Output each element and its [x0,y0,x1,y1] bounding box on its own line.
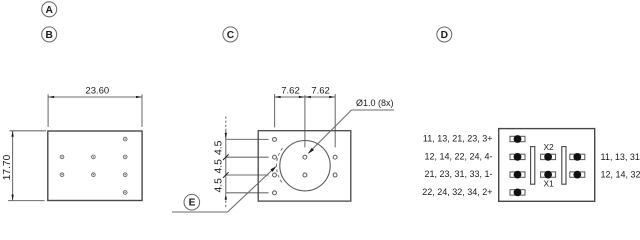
svg-text:23.60: 23.60 [85,85,109,96]
svg-text:11, 13, 21, 23, 3+: 11, 13, 21, 23, 3+ [423,133,493,143]
svg-text:21, 23, 31, 33, 1-: 21, 23, 31, 33, 1- [424,169,492,179]
svg-text:D: D [441,30,448,41]
svg-text:4.5: 4.5 [214,178,225,193]
solder pad hole col3 row2 (view B) [123,155,127,159]
drill hole col3 row2 (view C) [333,155,337,159]
svg-text:E: E [189,198,196,209]
pin left row1 (view D) [510,135,525,143]
dimension 23.60 extension lines (view B) [48,94,142,127]
dimension 17.70 line and arrows (view B) [11,131,13,201]
dimension 7.62 line and arrows (view C) [275,96,336,98]
view label E [184,194,200,210]
svg-text:4.5: 4.5 [214,159,225,174]
view label B [42,27,57,42]
svg-text:7.62: 7.62 [311,85,330,96]
coil pin X1 (view D) [541,171,556,179]
drill hole col3 row3 (view C) [333,173,337,177]
svg-text:Ø1.0 (8x): Ø1.0 (8x) [356,98,394,108]
chained dimension tick extension lines (view C) [226,139,269,192]
solder pad hole col2 row3 (view B) [92,173,96,177]
chained dimension arrows and slash ticks (view C) [223,133,229,200]
pin left row4 (view D) [510,189,525,197]
coil bar left (view D) [531,147,535,185]
solder pad hole col3 row4 (view B) [123,191,127,195]
solder pad hole col3 row3 (view B) [123,173,127,177]
pin left row2 (view D) [510,153,525,161]
drill hole col2 row3 (view C) [303,173,307,177]
svg-text:C: C [227,30,235,41]
relay base outline rectangle (view D) [499,129,595,202]
pin left row3 (view D) [510,171,525,179]
drill hole col1 row3 (view C) [273,173,277,177]
relay body circle (view C) [280,141,330,191]
dashed keying arc (view C) [276,148,282,183]
dimension 7.62 extension lines (view C) [275,94,336,147]
solder pad hole col1 row3 (view B) [60,173,64,177]
relay body outline rectangle (view C) [258,131,351,201]
svg-text:X1: X1 [543,178,554,188]
svg-text:12, 14, 32: 12, 14, 32 [601,170,640,180]
svg-text:17.70: 17.70 [2,154,13,180]
chained dimension 4.5 vertical line (view C) [225,117,227,208]
svg-text:B: B [46,30,53,41]
terminal labels right column (view D) [601,152,640,180]
solder pad hole col1 row2 (view B) [60,155,64,159]
svg-text:11, 13, 31: 11, 13, 31 [601,152,640,162]
svg-text:A: A [46,5,54,16]
drill hole col1 row4 (view C) [273,191,277,195]
view label D [437,27,452,42]
dimension 17.70 extension lines (view B) [8,131,46,201]
pin right-col row3 (view D) [570,171,585,179]
svg-text:12, 14, 22, 24, 4-: 12, 14, 22, 24, 4- [424,151,492,161]
footprint outline rectangle (view B) [48,131,142,201]
solder pad hole col2 row2 (view B) [92,155,96,159]
coil bar right (view D) [562,147,566,185]
leader line from E to keying arc (view C) [172,166,277,212]
svg-text:7.62: 7.62 [281,85,300,96]
terminal labels left column (view D) [422,133,492,196]
solder pad hole col3 row1 (view B) [123,137,127,141]
leader line to hole (view C) [308,110,394,154]
drill hole col2 row2 (view C) [303,155,307,159]
view label A [42,2,57,17]
drill hole col1 row2 (view C) [273,155,277,159]
drill hole col1 row1 (view C) [273,137,277,141]
view label C [223,27,238,42]
dimension 23.60 line and arrows (view B) [48,96,142,98]
coil pin X2 (view D) [541,153,556,161]
svg-text:4.5: 4.5 [214,140,225,155]
svg-text:X2: X2 [543,142,554,152]
pin right-col row2 (view D) [570,153,585,161]
svg-text:22, 24, 32, 34, 2+: 22, 24, 32, 34, 2+ [422,187,492,197]
